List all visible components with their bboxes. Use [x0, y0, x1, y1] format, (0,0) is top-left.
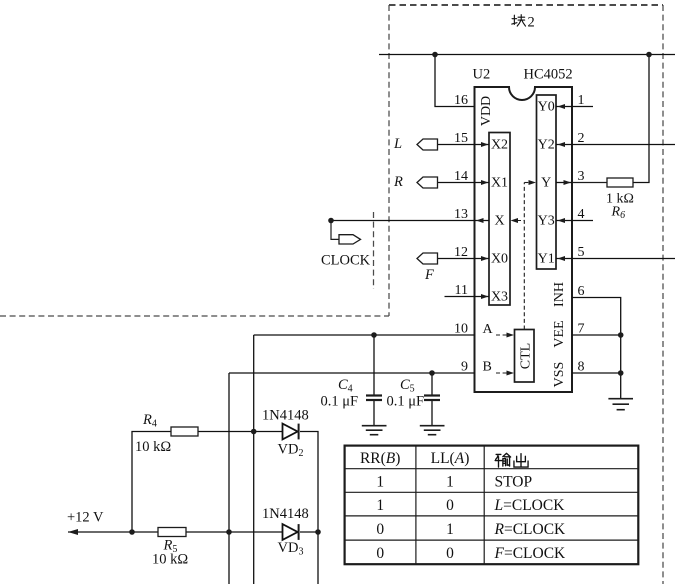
wire pin6 INH to ground [572, 298, 621, 399]
svg-text:X: X [494, 214, 504, 229]
dashed B to CTL [496, 372, 507, 374]
arrowhead ctl to X [511, 218, 519, 223]
U2 inner X multiplexer box [489, 133, 510, 306]
svg-text:CLOCK: CLOCK [321, 253, 371, 269]
wire pin14 from R flag [438, 182, 490, 184]
svg-text:L: L [393, 136, 402, 152]
svg-text:X3: X3 [491, 290, 508, 305]
svg-text:13: 13 [454, 207, 468, 222]
glyph shu (output-1) [495, 454, 502, 467]
block2 dashed boundary left [388, 5, 390, 316]
svg-text:R=CLOCK: R=CLOCK [494, 521, 567, 538]
svg-text:1: 1 [446, 474, 454, 491]
flag F [417, 253, 438, 264]
flag L [417, 139, 438, 150]
node R4 branch [251, 429, 257, 435]
svg-text:A: A [483, 322, 494, 337]
svg-text:10 kΩ: 10 kΩ [135, 439, 171, 455]
arrowhead ctl to Y [529, 180, 537, 185]
wire pin3 to R6 riser [633, 55, 649, 183]
wire pin11 stub [445, 296, 490, 298]
node pin13 to CLOCK [328, 218, 334, 224]
svg-text:R: R [393, 174, 403, 190]
dashed A to CTL [496, 334, 507, 336]
node R5 to B branch [226, 529, 232, 535]
op-amp U2 HC4052 IC body [475, 87, 573, 392]
svg-text:9: 9 [461, 360, 468, 375]
U2 inner Y multiplexer box [537, 95, 557, 269]
wire R4 to VD2 [198, 431, 283, 433]
glyph kuai (block) [512, 15, 517, 24]
svg-text:1: 1 [446, 521, 454, 538]
svg-text:Y0: Y0 [538, 100, 555, 115]
svg-text:L=CLOCK: L=CLOCK [494, 497, 566, 514]
svg-text:5: 5 [578, 245, 585, 260]
svg-text:0: 0 [446, 545, 454, 562]
arrowhead pin13 X outward [476, 218, 484, 223]
wire pin8 VSS [572, 372, 621, 374]
arrowheads into Y box pins 1,2,4,5 [558, 104, 566, 261]
svg-text:12: 12 [454, 245, 468, 260]
node top rail to R6 [646, 52, 652, 58]
svg-text:1: 1 [376, 474, 384, 491]
svg-text:0.1 μF: 0.1 μF [387, 394, 425, 410]
block2 dashed boundary top [389, 4, 663, 6]
wire C5 to ground [431, 401, 433, 426]
node pin8 [618, 370, 624, 376]
svg-text:2: 2 [578, 131, 585, 146]
svg-text:X2: X2 [491, 138, 508, 153]
flag CLOCK [339, 235, 361, 244]
block2 dashed boundary right [662, 5, 664, 584]
wire pin5 [556, 258, 675, 260]
wire C4 drop [373, 335, 375, 395]
svg-text:1: 1 [578, 93, 585, 108]
svg-text:1N4148: 1N4148 [262, 506, 309, 522]
table header output (Chinese) [495, 453, 528, 467]
U2 CTL box [515, 330, 535, 383]
wire VDD top rail [379, 54, 675, 56]
svg-text:0: 0 [376, 521, 384, 538]
node VD2/VD3 join [315, 529, 321, 535]
node C5 tap [429, 370, 435, 376]
arrowhead pin3 Y outward [564, 180, 572, 185]
svg-text:15: 15 [454, 131, 468, 146]
arrowheads into X box pins 15,14,12,11 [481, 142, 489, 299]
node +12V to R4 leg [129, 529, 135, 535]
svg-text:U2: U2 [473, 67, 491, 83]
wire pin3 inside [556, 182, 572, 184]
node top rail to pin16 [432, 52, 438, 58]
svg-text:RR(B): RR(B) [360, 450, 400, 467]
svg-text:CTL: CTL [519, 343, 534, 369]
svg-text:6: 6 [578, 284, 585, 299]
svg-text:F=CLOCK: F=CLOCK [494, 545, 567, 562]
svg-text:Y3: Y3 [538, 214, 555, 229]
diode VD3 [283, 524, 298, 540]
wire pin12 from F flag [438, 258, 490, 260]
wire pin10 A [254, 334, 475, 336]
wire +12V rail [68, 531, 158, 533]
svg-text:7: 7 [578, 322, 585, 337]
wire VD2 out corner down [300, 432, 318, 584]
svg-text:B: B [483, 360, 492, 375]
node C4 tap [371, 332, 377, 338]
svg-text:F: F [424, 267, 434, 283]
svg-text:2: 2 [528, 15, 535, 31]
svg-text:3: 3 [578, 169, 585, 184]
svg-text:16: 16 [454, 93, 468, 108]
wire C5 drop [431, 373, 433, 395]
wire pin13 X output [331, 220, 489, 222]
svg-text:X0: X0 [491, 252, 508, 267]
dashed control line from CTL [496, 183, 530, 374]
svg-text:INH: INH [552, 282, 567, 307]
wire pin1 stub [556, 106, 593, 108]
svg-text:X1: X1 [491, 176, 508, 191]
node pin7 [618, 332, 624, 338]
glyph chu (output-2) [514, 454, 528, 467]
svg-text:VDD: VDD [479, 96, 494, 126]
svg-text:10: 10 [454, 322, 468, 337]
+12V arrow [68, 529, 78, 535]
label block2 (Chinese kuai + 2) [512, 15, 526, 26]
wire CLOCK stem [331, 221, 339, 240]
svg-text:Y: Y [541, 176, 551, 191]
svg-text:Y1: Y1 [538, 252, 555, 267]
svg-text:0: 0 [446, 497, 454, 514]
resistor R4 [171, 427, 198, 436]
wire pin15 from L flag [438, 144, 490, 146]
dashed segment near CLOCK [373, 212, 375, 289]
svg-text:11: 11 [455, 283, 468, 298]
wire R4 left leg [132, 432, 171, 533]
svg-text:10 kΩ: 10 kΩ [152, 552, 188, 568]
svg-text:STOP: STOP [495, 474, 533, 491]
svg-text:8: 8 [578, 360, 585, 375]
wire pin16 drop [435, 55, 475, 107]
wire VD3 out [300, 531, 318, 533]
wire B branch vertical [228, 373, 230, 584]
wire pin2 [556, 144, 675, 146]
svg-text:4: 4 [578, 207, 585, 222]
ground C4 [362, 426, 387, 435]
svg-text:LL(A): LL(A) [431, 450, 470, 467]
svg-text:14: 14 [454, 169, 468, 184]
truth table [345, 446, 639, 565]
svg-text:+12 V: +12 V [67, 510, 104, 526]
svg-text:VEE: VEE [552, 320, 567, 347]
ground C5 [420, 426, 445, 435]
svg-text:1: 1 [376, 497, 384, 514]
svg-text:Y2: Y2 [538, 138, 555, 153]
svg-text:1N4148: 1N4148 [262, 408, 309, 424]
svg-text:0.1 μF: 0.1 μF [321, 394, 359, 410]
svg-text:0: 0 [376, 545, 384, 562]
block1 dashed boundary bottom [0, 315, 389, 317]
resistor R6 [607, 178, 633, 187]
arrowhead A into CTL [507, 333, 515, 338]
svg-text:HC4052: HC4052 [524, 67, 573, 83]
capacitor C4 [366, 396, 382, 401]
wire R5 to VD3 [186, 531, 283, 533]
flag R [417, 177, 438, 188]
capacitor C5 [424, 396, 440, 401]
svg-text:VSS: VSS [552, 362, 567, 388]
wire pin7 VEE [572, 334, 621, 336]
arrowhead B into CTL [507, 371, 515, 376]
diode VD2 [283, 424, 298, 440]
wire pin9 B [229, 372, 475, 374]
wire A branch vertical [253, 335, 255, 584]
ground for VEE/VSS [608, 399, 633, 410]
wire C4 to ground [373, 401, 375, 426]
resistor R5 [158, 528, 186, 537]
wire pin4 stub [556, 220, 593, 222]
